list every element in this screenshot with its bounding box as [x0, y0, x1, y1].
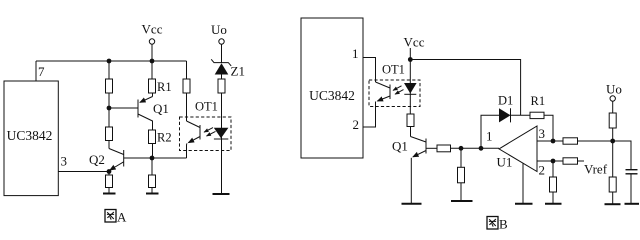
wire top rail B [410, 60, 520, 116]
svg-text:Q1: Q1 [153, 101, 169, 116]
Uo terminal B [606, 82, 622, 114]
optocoupler OT1-B dashed box [369, 63, 420, 107]
wire D1 anode riser [481, 115, 499, 148]
svg-text:A: A [117, 210, 127, 225]
svg-text:OT1: OT1 [195, 100, 218, 114]
svg-text:Z1: Z1 [231, 64, 245, 79]
wire pin7 riser [35, 61, 37, 81]
svg-text:UC3842: UC3842 [309, 88, 355, 103]
transistor Q1 (PNP) [109, 93, 169, 130]
Vcc terminal A [142, 22, 163, 62]
svg-text:UC3842: UC3842 [7, 128, 53, 143]
node Vcc junction [150, 59, 155, 64]
svg-text:OT1: OT1 [382, 63, 405, 77]
svg-text:7: 7 [38, 64, 45, 79]
svg-text:Uo: Uo [211, 22, 227, 37]
Vcc terminal B [404, 35, 425, 60]
Uo terminal A [211, 22, 227, 63]
svg-text:R1: R1 [157, 80, 172, 94]
wire U1 ground lead [522, 164, 524, 204]
ground A1 [103, 193, 116, 195]
svg-text:R2: R2 [157, 131, 172, 145]
wire pin2 stub [363, 102, 376, 128]
ground B6 [625, 203, 640, 205]
resistor Rb4 (pin3 series) [553, 138, 613, 144]
diode D1 [498, 94, 530, 123]
ground A3 [213, 193, 230, 195]
pin 3 stub [537, 126, 553, 141]
node top-left rail junction [107, 59, 112, 64]
svg-text:2: 2 [539, 163, 546, 178]
resistor Rb7 (Uo divider top) [609, 113, 616, 141]
resistor R2 [149, 130, 172, 158]
svg-text:Q1: Q1 [392, 139, 408, 154]
resistor Ra4 (below R2 node) [149, 158, 156, 194]
node Q1 base junction [107, 106, 112, 111]
opto phototransistor A [187, 121, 201, 145]
resistor Ra1 (left rail top) [106, 61, 113, 108]
opto light arrows B [393, 86, 404, 94]
resistor Rb1 (LED cathode) [407, 114, 414, 137]
capacitor C1 [626, 170, 638, 204]
caption 图A [105, 210, 127, 225]
pin 2 stub [537, 161, 553, 178]
node pin2 junction [551, 159, 556, 164]
svg-text:Vcc: Vcc [404, 35, 425, 50]
node Vcc-B junction [408, 57, 413, 62]
svg-text:B: B [499, 217, 508, 232]
svg-text:R1: R1 [531, 94, 546, 108]
resistor Rb5 (pin2 series to Vref) [553, 158, 608, 177]
node R2 bottom junction [150, 156, 155, 161]
opto light arrows A [204, 128, 216, 136]
wire cap feed [613, 141, 631, 170]
svg-text:1: 1 [486, 129, 493, 144]
caption 图B [487, 217, 508, 232]
svg-text:Vref: Vref [584, 162, 608, 177]
ground B3 [545, 203, 562, 205]
transistor Q1-B (NPN) [392, 137, 426, 204]
resistor Ra2 (left rail middle) [106, 108, 113, 149]
resistor Rb6 (pin2 to ground) [550, 161, 557, 204]
wire top rail A [36, 60, 187, 62]
ground B5 [605, 203, 621, 205]
resistor Rb2 (U1 out to Q1 base) [426, 145, 499, 152]
wire pin3 row [59, 171, 110, 173]
svg-text:3: 3 [61, 154, 68, 169]
resistor Ra3 (below Q2 emitter) [106, 172, 113, 194]
resistor Ra6 (Z1 series) [218, 79, 225, 139]
wire Q2 base row [124, 157, 187, 159]
transistor Q2 (NPN) [89, 149, 124, 171]
node D1 anode junction [479, 146, 484, 151]
IC U-B UC3842 box [301, 18, 363, 158]
wire pin1 stub [363, 58, 376, 83]
optocoupler OT1-A dashed box [180, 100, 232, 151]
ground B4 [515, 203, 533, 205]
resistor Rb3 (below out row) [458, 148, 465, 201]
resistor R1-B [530, 94, 553, 141]
resistor Ra5 (opto collector feed) [183, 61, 190, 121]
op-amp U1 [486, 126, 537, 172]
zener Z1 [211, 59, 245, 79]
svg-text:3: 3 [539, 126, 546, 141]
opto LED A [214, 128, 229, 194]
svg-text:2: 2 [353, 117, 360, 132]
node out-res junction [459, 146, 464, 151]
svg-text:Uo: Uo [606, 82, 622, 97]
ground A2 [146, 193, 159, 195]
ground B2 [451, 200, 473, 202]
node Q2 emitter junction [107, 169, 112, 174]
svg-text:Vcc: Vcc [142, 22, 163, 37]
node pin3 junction [551, 139, 556, 144]
opto phototransistor B [376, 82, 391, 101]
node Uo divider junction [610, 139, 615, 144]
resistor Rb8 (Uo divider bottom) [609, 141, 616, 204]
resistor R1 [149, 61, 172, 97]
svg-text:U1: U1 [497, 155, 513, 170]
ground B1 [402, 203, 422, 205]
wire opto emitter riser A [186, 145, 188, 159]
svg-text:1: 1 [352, 46, 359, 61]
svg-text:D1: D1 [498, 94, 513, 108]
IC U-A UC3842 box [4, 81, 58, 196]
opto LED B [404, 60, 417, 115]
svg-text:Q2: Q2 [89, 152, 105, 167]
